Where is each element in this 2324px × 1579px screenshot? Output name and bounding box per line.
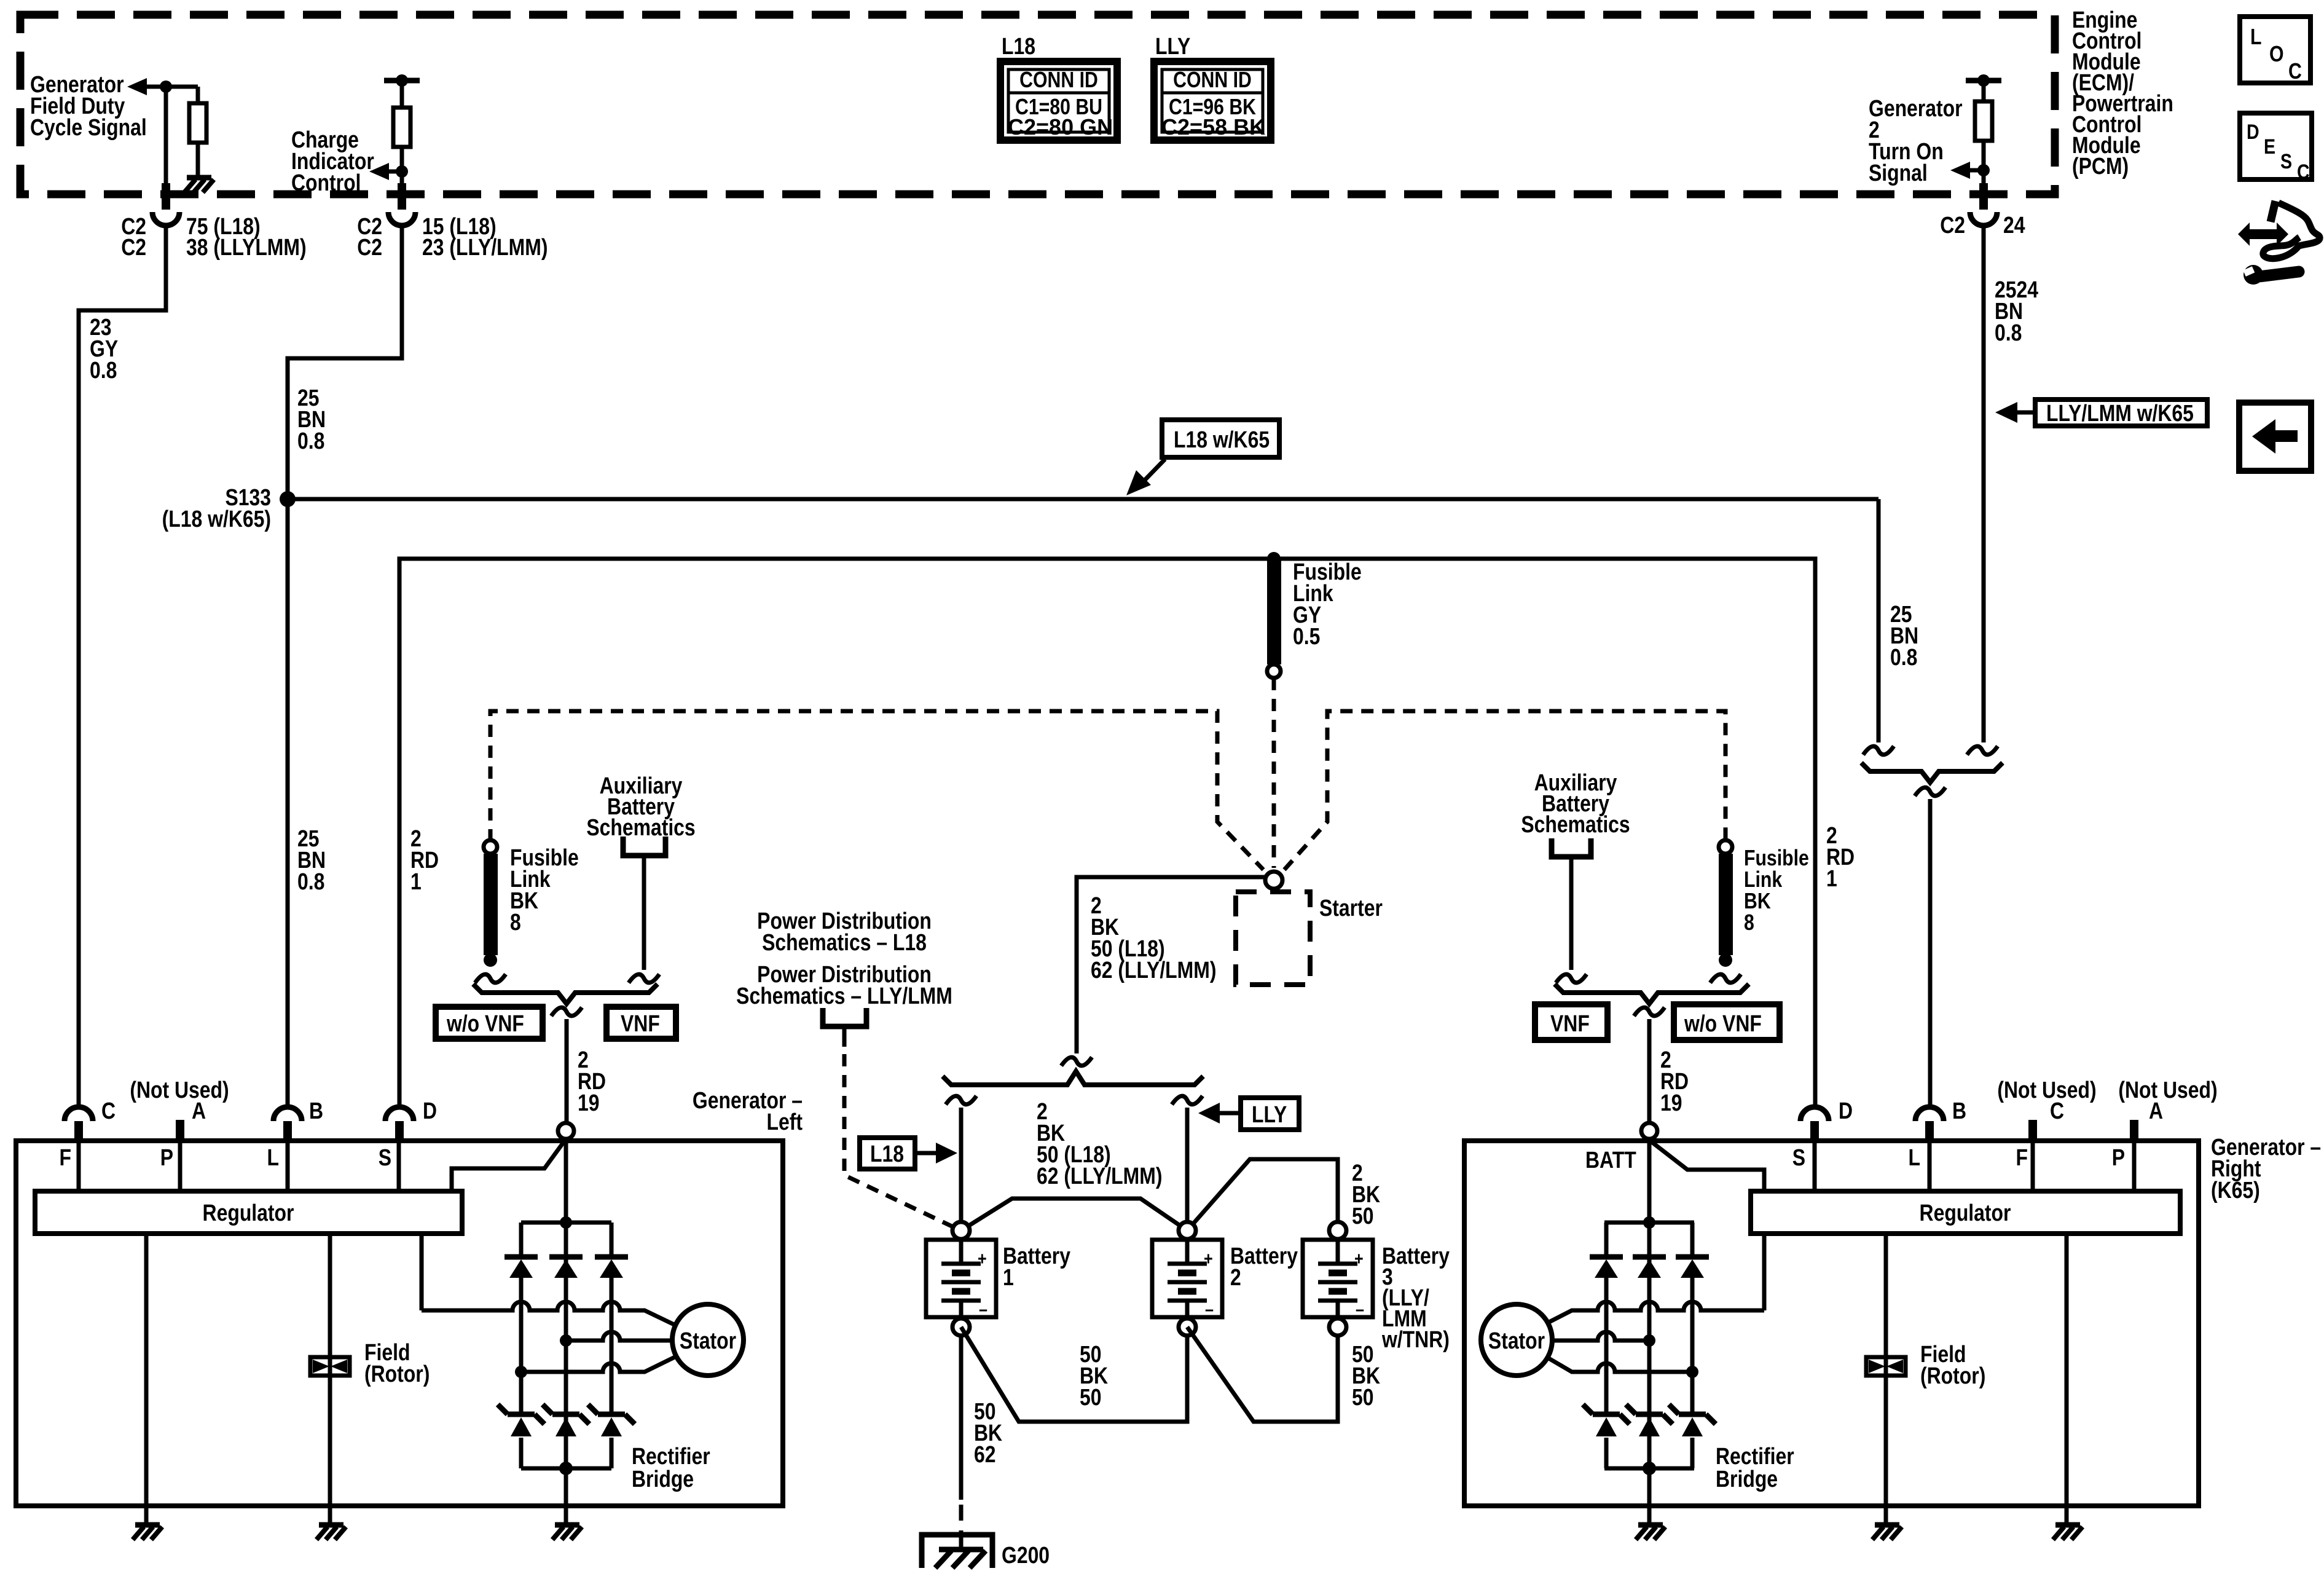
svg-text:(PCM): (PCM) [2072,153,2129,179]
label Power Distribution Schematics - LLY/LMM [736,961,952,1009]
label 50 BK 62 [974,1398,1002,1467]
diode lower 1 (gen-left) [498,1404,544,1436]
back arrow legend box [2239,403,2311,471]
wire rectifier output column (gen-left) [564,1139,568,1525]
svg-text:BATT: BATT [1585,1147,1636,1173]
wire break squiggle (merged 25 BN) [1915,787,1945,796]
svg-text:VNF: VNF [1550,1010,1590,1036]
label 2 RD 1 (left) [410,825,439,894]
LLY CONN ID table [1154,61,1271,140]
wire break squiggle (25 BN right) [1863,746,1894,755]
svg-text:+: + [1204,1248,1213,1269]
svg-text:S: S [2280,150,2292,173]
svg-text:C2=80 GN: C2=80 GN [1008,114,1113,140]
L18 CONN ID table [1000,61,1117,140]
node junction dot on field duty wire [160,81,172,93]
diode upper 3 (gen-left) [595,1257,628,1278]
rectifier top bus (gen-right) [1604,1216,1694,1229]
label Fusible Link BK 8 (left) [510,845,579,935]
connector arc B (gen-left) [273,1098,323,1141]
wire 23 GY 0.8 from C2 to generator-left pin C [79,226,166,1106]
label pin 75 (L18) / 38 (LLYLMM) [186,213,307,260]
svg-text:62 (LLY/LMM): 62 (LLY/LMM) [1091,957,1216,983]
svg-text:(Not Used): (Not Used) [2118,1077,2217,1103]
wire regulator to ground (gen-left) [144,1234,149,1525]
svg-text:VNF: VNF [621,1010,660,1036]
label Field (Rotor) (gen-right) [1920,1341,1985,1388]
wire pin P to regulator (gen-right) [2112,1141,2134,1191]
svg-text:(L18 w/K65): (L18 w/K65) [162,506,271,532]
svg-text:0.5: 0.5 [1293,623,1320,649]
label flag LLY [1241,1098,1299,1130]
label Generator - Right (K65) [2211,1134,2321,1203]
connector C2 pin 75/38 (in-line cup) [152,212,179,226]
svg-text:(K65): (K65) [2211,1177,2260,1203]
label Field (Rotor) (gen-left) [364,1339,430,1387]
label C2 C2 (left connector) [121,213,146,260]
svg-text:Regulator: Regulator [203,1200,294,1226]
wire output to regulator S sense (gen-left) [452,1139,566,1191]
wire 2524 BN 0.8 from C2-24 down [1982,226,1986,742]
svg-text:–: – [1356,1299,1364,1320]
brace splitting starter feed to battery 1 and 2 [943,1071,1203,1085]
ground (gen-left regulator) [133,1525,162,1540]
svg-text:Stator: Stator [680,1328,737,1353]
svg-text:F: F [2016,1144,2028,1170]
rectifier top bus (gen-left) [521,1216,611,1229]
label Generator 2 Turn On Signal [1869,95,1963,186]
label Rectifier Bridge (gen-right) [1716,1443,1794,1492]
ground (gen-left rectifier) [552,1525,582,1540]
arrow from LLY flag to battery 2 wire [1198,1103,1241,1124]
svg-text:L: L [2250,25,2261,50]
ground (gen-left field) [316,1525,346,1540]
label flag L18 [860,1138,915,1169]
wire pin L to regulator (gen-right) [1909,1141,1929,1191]
connector C2 pin 15/23 (in-line cup) [388,147,415,226]
wire pin F to regulator (gen-right) [2016,1141,2033,1191]
label flag L18 w/K65 [1162,420,1279,457]
svg-text:0.8: 0.8 [1890,644,1917,670]
connector C2 pin 24 (in-line cup) [1970,141,1997,226]
wire break squiggle (2 RD 19 right) [1634,1007,1665,1016]
fusible link GY 0.5 [1267,559,1281,678]
arrow from L18 flag to battery 1 wire [915,1143,957,1164]
ground (gen-right regulator) [2053,1525,2083,1540]
svg-text:C: C [2297,160,2310,184]
svg-text:Schematics: Schematics [1521,811,1630,837]
svg-text:–: – [1205,1299,1214,1320]
svg-text:S: S [1792,1144,1805,1170]
svg-text:Left: Left [767,1109,803,1135]
svg-text:C2=58 BK: C2=58 BK [1161,114,1265,140]
arrow from L18 w/K65 flag to S133 bus [1126,459,1165,495]
pin C stub (not used, gen-right) [1997,1077,2096,1141]
label Generator - Left [693,1087,803,1135]
node starter terminal circle [1265,872,1282,889]
svg-text:CONN ID: CONN ID [1173,68,1252,93]
svg-text:Bridge: Bridge [632,1466,694,1492]
regulator (gen-right) [1751,1191,2180,1234]
bracket under auxiliary battery schematics (right) [1552,838,1591,970]
svg-text:62: 62 [974,1441,996,1467]
svg-text:G200: G200 [1002,1542,1050,1568]
wire regulator to field coil (gen-right) [1884,1234,1888,1525]
stator phase wire 3 (gen-left) [515,1357,676,1378]
label flag LLY/LMM w/K65 [2035,400,2207,427]
double-arrow + wrench service icon [2238,201,2320,285]
label 2 BK 50 (L18) 62 (LLY/LMM) (battery link) [1037,1098,1162,1189]
node 2 RD 19 output terminal (gen-left) [558,1123,574,1139]
diode lower 3 (gen-right) [1669,1404,1716,1436]
svg-text:Signal: Signal [1869,160,1928,186]
svg-text:B: B [1952,1098,1966,1124]
wire pin P to regulator [160,1141,180,1191]
svg-text:0.8: 0.8 [297,868,324,894]
label L18 connector table title [1002,33,1035,59]
battery B2 [1152,1239,1222,1319]
wire battery 1 + to battery 2 + [961,1199,1187,1231]
brace merging left fusible link and aux tap [473,984,658,1004]
rectifier bottom bus (gen-left) [521,1462,611,1475]
LOC legend box [2240,17,2310,84]
rectifier bottom bus (gen-right) [1604,1462,1694,1475]
svg-text:P: P [160,1144,173,1170]
diode lower 2 (gen-left) [543,1404,589,1436]
svg-text:+: + [1354,1248,1364,1269]
svg-text:8: 8 [1744,911,1754,935]
label Battery 3 (LLY/LMM w/TNR) [1381,1243,1450,1352]
arrow from LLY/LMM w/K65 flag to wire [1995,402,2035,423]
svg-text:E: E [2264,135,2275,159]
svg-text:D: D [1839,1098,1853,1124]
wire 2 RD 19 to generator-left output [565,1019,569,1123]
arrow to Generator Field Duty Cycle Signal [127,78,198,95]
resistor R3 (generator 2 turn on) [1975,81,1992,141]
svg-text:LLY: LLY [1252,1101,1287,1127]
node battery 2 terminals [1179,1222,1196,1336]
label 50 BK 50 (between battery 1 and 2) [1080,1341,1108,1410]
svg-text:LLY: LLY [1155,33,1190,59]
battery B3 [1303,1239,1373,1319]
svg-text:C2: C2 [1940,212,1965,238]
generator-left box [16,1141,783,1506]
diode upper 2 (gen-right) [1633,1257,1666,1278]
fusible link BK 8 (left) [484,840,498,967]
wire field duty cycle signal down to connector [164,87,168,210]
wire 25 BN 0.8 from C2 to generator-left pin B [288,226,402,1106]
svg-text:B: B [309,1098,323,1124]
wire BATT to regulator sense (gen-right) [1649,1140,1764,1191]
svg-text:1: 1 [1003,1264,1014,1290]
label Power Distribution Schematics - L18 [757,908,932,955]
label Starter [1319,895,1383,921]
svg-text:Control: Control [291,170,361,195]
svg-text:38 (LLYLMM): 38 (LLYLMM) [186,234,307,260]
label C2 (right connector) [1940,212,1965,238]
brace merging 25 BN and 2524 BN [1861,763,2003,782]
wire merged 25 BN to generator-right pin L [1928,799,1933,1106]
label Rectifier Bridge (gen-left) [632,1443,710,1492]
starter dashed box [1236,892,1310,985]
regulator (gen-left) [35,1191,462,1234]
svg-text:Generator: Generator [1869,95,1963,121]
diode upper 1 (gen-left) [504,1257,538,1278]
label 25 BN 0.8 (right) [1890,601,1918,670]
wire break squiggle (2 RD 19 left) [551,1007,582,1016]
svg-text:–: – [979,1299,987,1320]
label 2 RD 19 (right) [1660,1047,1689,1116]
resistor R2 (charge indicator) [393,81,410,147]
label 2 BK 50 (battery 3 feed) [1352,1160,1380,1229]
svg-text:2: 2 [1230,1264,1241,1290]
ECM/PCM module dashed box [20,15,2055,194]
svg-text:Stator: Stator [1488,1328,1545,1353]
label LLY connector table title [1155,33,1190,59]
ground (gen-right rectifier) [1636,1525,1665,1540]
wire battery 1 - to battery 2 - [961,1327,1187,1422]
wire battery 2 - to battery 3 - [1187,1327,1338,1422]
svg-text:(Not Used): (Not Used) [130,1077,229,1103]
svg-text:w/o VNF: w/o VNF [1684,1010,1762,1036]
svg-text:50: 50 [1080,1384,1102,1410]
label Battery 1 [1003,1243,1070,1290]
stator phase wire 1 (gen-left) [422,1302,675,1325]
stator phase wire 2 (gen-right) [1552,1332,1655,1347]
svg-text:Regulator: Regulator [1920,1200,2011,1226]
svg-text:LLY/LMM w/K65: LLY/LMM w/K65 [2046,400,2194,426]
node junction on 2RD bus at fusible link [1267,552,1281,565]
ground (gen-right field) [1872,1525,1902,1540]
svg-text:Rectifier: Rectifier [632,1443,710,1469]
label S133 (L18 w/K65) [162,484,271,532]
label 50 BK 50 (between battery 2 and 3) [1352,1341,1380,1410]
svg-text:Bridge: Bridge [1716,1466,1778,1492]
label Fusible Link BK 8 (right) [1744,846,1809,935]
wire rectifier output column (gen-right) [1647,1139,1652,1525]
wire pin F to regulator [60,1141,79,1191]
bracket under auxiliary battery schematics (left) [623,837,665,970]
svg-text:D: D [2247,120,2259,144]
wire 2 RD 19 to generator-right BATT [1647,1019,1652,1123]
svg-text:1: 1 [1826,865,1837,891]
label 23 GY 0.8 [90,314,118,383]
label 2 RD 19 (left) [578,1047,606,1116]
wire starter to battery bank [1077,877,1265,1053]
label Battery 2 [1230,1243,1298,1290]
svg-text:+: + [978,1248,987,1269]
wire regulator to field coil (gen-left) [328,1234,332,1525]
label Fusible Link GY 0.5 [1293,559,1362,649]
arrow to Charge Indicator Control [369,163,408,180]
svg-text:C: C [101,1098,116,1124]
label Auxiliary Battery Schematics (right) [1521,770,1630,837]
svg-text:Schematics: Schematics [586,814,695,840]
arrow to Generator 2 Turn On Signal [1950,162,1990,179]
label 2 RD 1 (right) [1826,822,1855,891]
stator phase wire 1 (gen-right) [1547,1302,1764,1323]
label box w/o VNF (left) [436,1007,543,1039]
svg-text:w/o VNF: w/o VNF [446,1010,524,1036]
svg-text:C2: C2 [357,234,382,260]
label pin 15 (L18) / 23 (LLY/LMM) [422,213,548,260]
wire regulator to ground (gen-right) [2065,1234,2069,1525]
svg-text:8: 8 [510,909,521,935]
svg-text:0.8: 0.8 [90,357,117,383]
svg-text:w/TNR): w/TNR) [1381,1326,1450,1352]
stator phase wire 2 (gen-left) [560,1332,672,1347]
wire to battery 1 positive [946,1096,976,1222]
svg-text:(Rotor): (Rotor) [364,1361,430,1387]
brace merging right aux tap and fusible link [1555,984,1749,1004]
wire pin S to regulator [379,1141,399,1191]
rectifier side columns (gen-right) [1606,1223,1692,1468]
svg-text:0.8: 0.8 [297,428,324,454]
svg-text:C2: C2 [121,234,146,260]
node T-bar at top of R3 [1966,74,2001,87]
svg-text:50: 50 [1352,1203,1374,1229]
ground (ECM internal, R1) [184,178,214,192]
stator winding circle (gen-left) [672,1304,744,1376]
DESC legend box [2240,113,2312,184]
label box VNF (left) [607,1007,676,1039]
svg-text:23 (LLY/LMM): 23 (LLY/LMM) [422,234,548,260]
svg-text:C: C [2288,60,2302,84]
svg-text:62 (LLY/LMM): 62 (LLY/LMM) [1037,1163,1162,1189]
rectifier side columns (gen-left) [521,1223,611,1468]
wire battery 2 + to battery 3 + [1187,1159,1338,1231]
connector arc C (gen-left) [65,1098,116,1141]
wire pin L to regulator [267,1141,288,1191]
svg-text:L: L [267,1144,279,1170]
connector arc D (gen-right) [1800,1098,1853,1141]
resistor R1 (field duty pull-up) [189,87,206,176]
fusible link BK 8 (right) [1719,840,1733,967]
diode lower 3 (gen-left) [588,1404,635,1436]
node T-bar at top of R2 [384,74,420,87]
wire regulator to stator sense (gen-right) [1762,1234,1767,1310]
svg-text:19: 19 [1660,1090,1682,1116]
wire to battery 2 positive [1172,1096,1203,1222]
svg-text:L18 w/K65: L18 w/K65 [1174,427,1270,452]
svg-text:F: F [60,1144,71,1170]
diode upper 2 (gen-left) [549,1257,583,1278]
diode lower 2 (gen-right) [1626,1404,1673,1436]
svg-text:S: S [379,1144,391,1170]
wire break squiggle (aux tap left) [629,974,659,983]
svg-text:Cycle Signal: Cycle Signal [30,114,147,140]
svg-text:L18: L18 [1002,33,1035,59]
svg-text:L: L [1909,1144,1920,1170]
label 2 BK 50 (L18) 62 (LLY/LMM) (starter feed) [1091,892,1216,983]
diode upper 1 (gen-right) [1590,1257,1623,1278]
wire dashed from fusible link GY to starter [1272,678,1276,868]
pin A stub (not used) [130,1077,229,1141]
wire pin S to regulator (gen-right) [1792,1141,1815,1191]
stator phase wire 3 (gen-right) [1547,1357,1698,1378]
wire 50 BK 62 battery 1 - to ground G200 [959,1336,964,1534]
label 25 BN 0.8 (upper) [297,385,326,454]
wire dashed bus left segment to fusible link BK [490,711,1263,870]
svg-text:D: D [423,1098,437,1124]
generator-right box [1464,1141,2199,1506]
node battery 3 terminals [1329,1222,1346,1336]
node BATT output terminal (gen-right) [1641,1123,1657,1139]
diode upper 3 (gen-right) [1676,1257,1709,1278]
svg-text:Starter: Starter [1319,895,1383,921]
wire break squiggle (aux tap right) [1556,974,1587,983]
svg-text:24: 24 [2003,212,2025,238]
label C2 C2 (second connector) [357,213,382,260]
wire dashed power distribution feed to battery 1 + [844,1054,954,1227]
diode lower 1 (gen-right) [1583,1404,1630,1436]
svg-text:P: P [2112,1144,2125,1170]
svg-text:1: 1 [410,868,422,894]
label BATT [1585,1147,1636,1173]
connector arc B (gen-right) [1915,1098,1966,1141]
wire break squiggle (fusible link left) [475,974,506,983]
stator winding circle (gen-right) [1481,1304,1552,1376]
wire dashed bus right segment to fusible link BK [1284,711,1725,870]
field rotor coil (gen-left) [310,1357,350,1376]
svg-text:Schematics – LLY/LMM: Schematics – LLY/LMM [736,983,952,1009]
connector arc D (gen-left) [385,1098,437,1141]
wire break squiggle (fusible link right) [1710,974,1741,983]
label 25 BN 0.8 (lower left) [297,825,326,894]
svg-text:CONN ID: CONN ID [1019,68,1098,93]
node S133 splice [280,491,296,507]
label Engine Control Module (ECM)/Powertrain Control Module (PCM) [2072,7,2173,179]
label box VNF (right) [1535,1004,1608,1040]
svg-text:O: O [2269,42,2284,67]
wire 2 RD 1 bus (gen-left D to gen-right S) [399,559,1815,1106]
bracket under power distribution labels [823,1008,866,1047]
svg-text:0.8: 0.8 [1995,320,2022,345]
svg-text:(Not Used): (Not Used) [1997,1077,2096,1103]
pin A stub (not used, gen-right) [2118,1077,2217,1141]
label G200 [1002,1542,1050,1568]
wire regulator to stator sense (gen-left) [420,1234,424,1310]
wire break squiggle (starter feed) [1061,1057,1092,1066]
label Charge Indicator Control [291,127,374,195]
label box w/o VNF (right) [1674,1004,1780,1040]
wire 25 BN 0.8 right drop [1877,499,1881,742]
svg-text:Rectifier: Rectifier [1716,1443,1794,1469]
field rotor coil (gen-right) [1866,1357,1906,1376]
svg-text:(Rotor): (Rotor) [1920,1363,1985,1388]
svg-text:50: 50 [1352,1384,1374,1410]
svg-text:19: 19 [578,1090,600,1116]
label pin 24 [2003,212,2025,238]
ground G200 [922,1535,992,1568]
wire break squiggle (2524 BN) [1967,746,1998,755]
label Generator Field Duty Cycle Signal [30,71,147,140]
label Auxiliary Battery Schematics (left) [586,773,695,840]
svg-text:L18: L18 [870,1141,904,1167]
label 2524 BN 0.8 [1995,277,2038,345]
battery B1 [926,1239,996,1319]
svg-text:Schematics – L18: Schematics – L18 [762,929,927,955]
wire S133 bus to right side [288,497,1878,502]
node battery 1 terminals [952,1222,970,1336]
